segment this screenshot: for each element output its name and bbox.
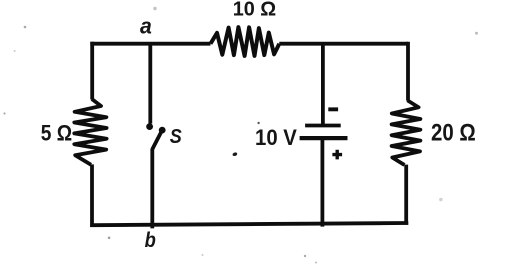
wire: top segment from node a left corner to resistor 10 ohm bbox=[90, 42, 210, 46]
wire: battery branch lower segment bbox=[320, 138, 324, 227]
resistor 20 ohm (vertical zigzag, right branch) bbox=[392, 100, 421, 165]
battery minus polarity sign bbox=[328, 107, 338, 111]
svg-text:20 Ω: 20 Ω bbox=[431, 119, 476, 146]
wire: top segment from resistor 10 ohm to top-right corner bbox=[279, 42, 408, 46]
svg-text:b: b bbox=[145, 228, 156, 252]
wire: right branch upper segment bbox=[406, 42, 410, 101]
wire: bottom rail from bottom-left corner to bottom-right corner bbox=[90, 223, 408, 225]
switch S pivot contact dot bbox=[159, 127, 166, 134]
svg-text:10 V: 10 V bbox=[255, 125, 297, 150]
svg-text:a: a bbox=[140, 14, 152, 39]
resistor 10 ohm (horizontal zigzag, top rail) bbox=[211, 27, 280, 56]
wire: switch branch lower segment (switch down to node b) bbox=[150, 149, 154, 229]
switch S blade (open) bbox=[152, 132, 161, 149]
battery bottom plate (positive, longer) bbox=[300, 136, 348, 140]
wire: left branch lower segment bbox=[90, 164, 94, 227]
svg-text:S: S bbox=[170, 125, 182, 148]
wire: left branch upper segment bbox=[90, 42, 94, 100]
battery plus polarity sign bbox=[332, 150, 342, 160]
svg-text:10 Ω: 10 Ω bbox=[233, 0, 277, 20]
battery top plate (negative, shorter) bbox=[305, 124, 341, 128]
wire: switch branch upper segment (node a down to switch) bbox=[148, 44, 152, 124]
resistor 5 ohm (vertical zigzag, left branch) bbox=[74, 99, 106, 165]
switch S upper contact dot bbox=[146, 123, 153, 130]
svg-text:5 Ω: 5 Ω bbox=[41, 120, 72, 145]
wire: battery branch upper segment bbox=[321, 44, 325, 126]
wire: right branch lower segment bbox=[404, 165, 408, 225]
